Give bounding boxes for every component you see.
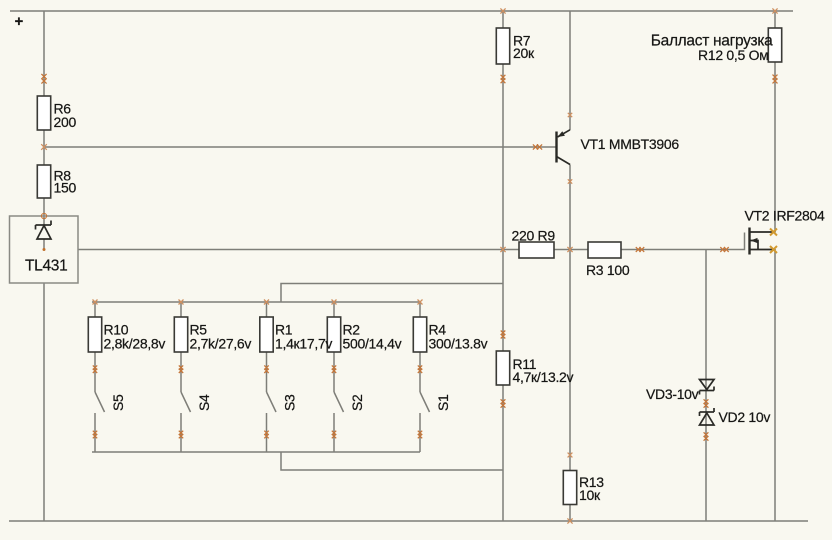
svg-text:2,7k/27,6v: 2,7k/27,6v [190,336,252,352]
svg-text:R3 100: R3 100 [586,262,630,278]
svg-text:S5: S5 [110,394,126,411]
svg-text:220 R9: 220 R9 [512,228,556,244]
svg-text:R12 0,5 Ом: R12 0,5 Ом [698,47,768,63]
svg-text:S4: S4 [196,394,212,411]
svg-text:VD2 10v: VD2 10v [719,409,771,425]
svg-text:10к: 10к [579,487,601,503]
svg-text:4,7к/13.2v: 4,7к/13.2v [513,369,574,385]
svg-text:VT1 MMBT3906: VT1 MMBT3906 [581,136,680,152]
svg-text:200: 200 [54,114,77,130]
svg-text:300/13.8v: 300/13.8v [429,336,488,352]
svg-text:VD3-10v: VD3-10v [646,386,699,402]
svg-text:S2: S2 [349,394,365,411]
svg-text:1,4к17,7v: 1,4к17,7v [275,336,332,352]
svg-text:150: 150 [54,180,77,196]
svg-text:2,8k/28,8v: 2,8k/28,8v [104,336,166,352]
svg-text:S1: S1 [435,394,451,411]
svg-text:VT2 IRF2804: VT2 IRF2804 [745,208,825,224]
svg-text:20к: 20к [513,45,535,61]
svg-text:S3: S3 [282,394,298,411]
svg-text:500/14,4v: 500/14,4v [343,336,402,352]
svg-text:+: + [15,13,24,30]
svg-text:TL431: TL431 [25,258,67,275]
